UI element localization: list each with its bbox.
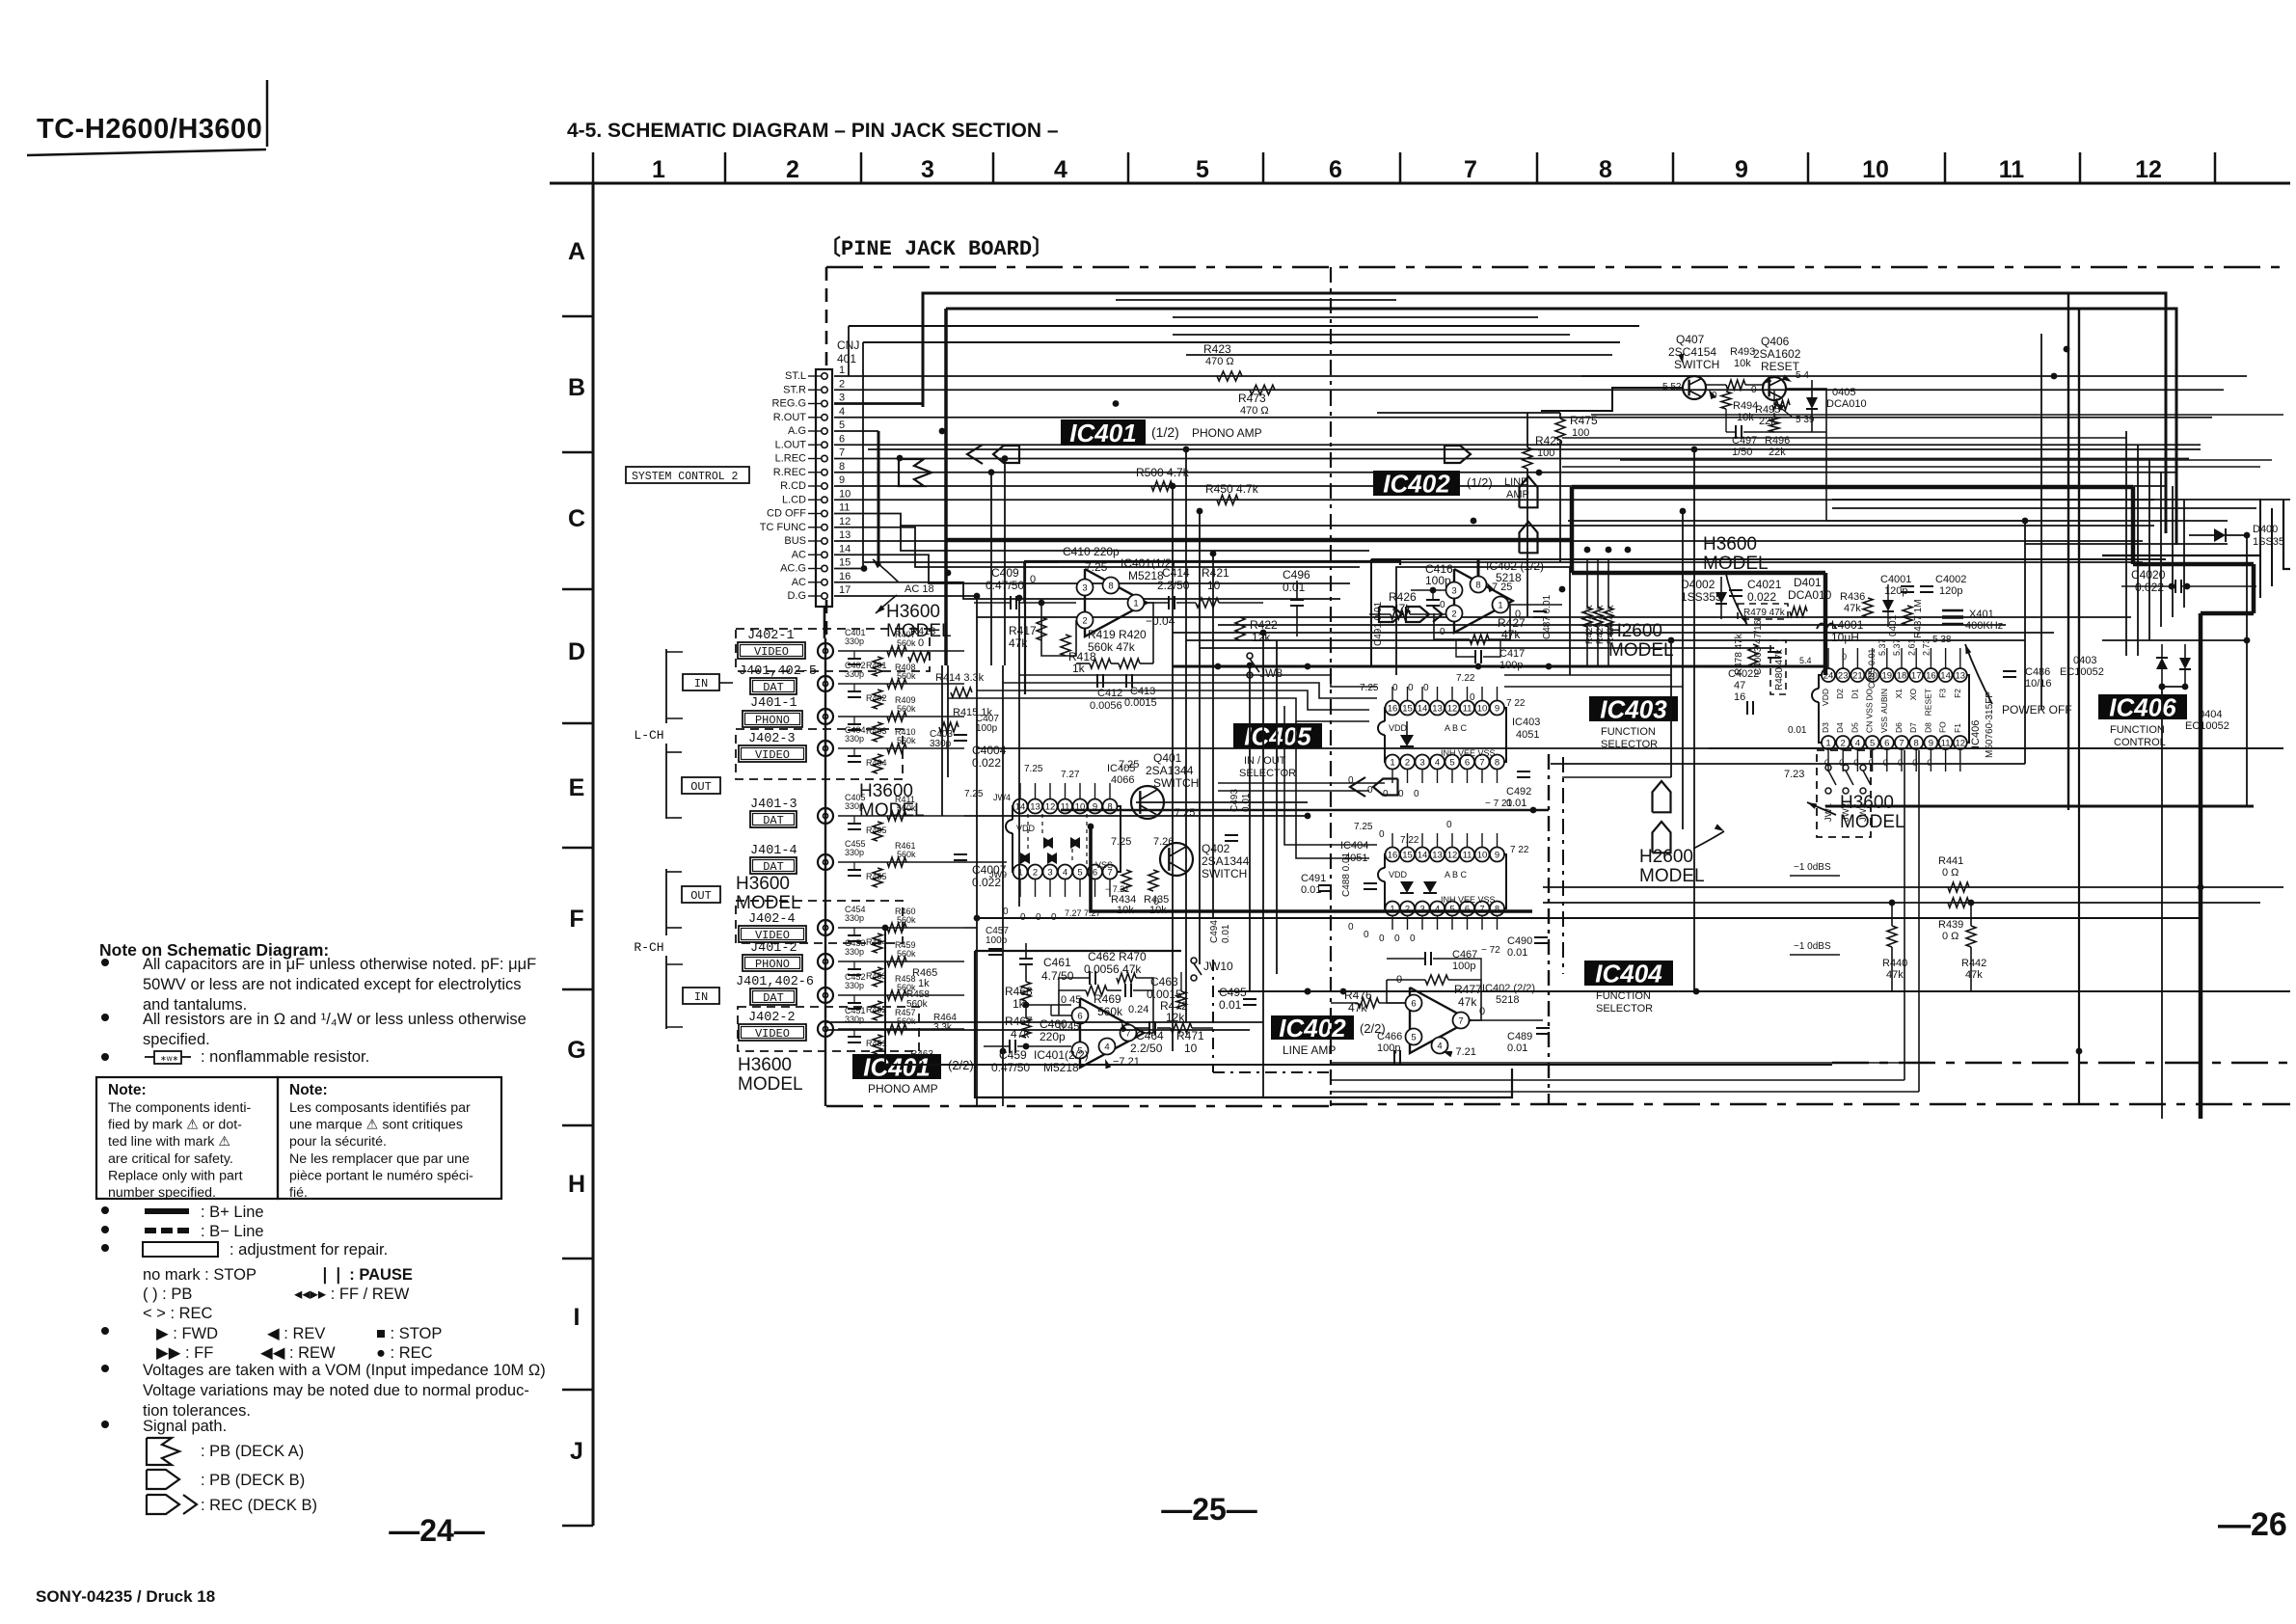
wire pin16 AC <box>834 582 1340 599</box>
wire VDD thick rail <box>1173 665 1825 668</box>
wire reset out <box>1786 389 1826 432</box>
jack components R451 <box>838 1028 964 1030</box>
resistor R437 <box>1903 606 1912 625</box>
wire band below IC403 <box>1218 782 1385 784</box>
svg-text:8: 8 <box>1914 739 1919 749</box>
svg-text:AC 18: AC 18 <box>905 583 934 595</box>
svg-text:DO: DO <box>1865 689 1875 701</box>
wire pin5 A.G <box>834 430 878 432</box>
svg-text:13: 13 <box>1432 851 1443 861</box>
svg-text:0.24: 0.24 <box>1128 1004 1148 1015</box>
svg-text:4-5. SCHEMATIC DIAGRAM – PIN: 4-5. SCHEMATIC DIAGRAM – PIN JACK SECTIO… <box>567 120 1059 142</box>
svg-text:1: 1 <box>1825 739 1830 749</box>
svg-text:0: 0 <box>1912 758 1917 768</box>
svg-text:R405: R405 <box>866 826 887 835</box>
signal arrow left of IC403 <box>1350 777 1365 797</box>
resistor R473 <box>1250 385 1275 394</box>
svg-text:R402: R402 <box>866 693 887 703</box>
svg-text:DCA010: DCA010 <box>1826 398 1867 410</box>
wire pin3 REG.G <box>834 402 923 405</box>
svg-text:8: 8 <box>1108 582 1113 592</box>
svg-text:D: D <box>568 638 585 665</box>
svg-text:C417: C417 <box>1499 648 1525 660</box>
svg-text:400KHz: 400KHz <box>1965 620 2003 632</box>
svg-text:: REC (DECK B): : REC (DECK B) <box>201 1497 317 1514</box>
svg-text:D1: D1 <box>1850 689 1859 699</box>
svg-text:19: 19 <box>1882 671 1893 682</box>
svg-text:11: 11 <box>1941 739 1951 749</box>
svg-text:3: 3 <box>839 392 845 404</box>
svg-text:0: 0 <box>1398 789 1404 799</box>
svg-text:D401: D401 <box>1794 576 1822 589</box>
wire IN bracket top <box>666 651 683 653</box>
svg-text:560k: 560k <box>1097 1005 1123 1018</box>
svg-text:J401-4: J401-4 <box>750 844 797 858</box>
svg-text:C490: C490 <box>1507 935 1532 947</box>
svg-text:0: 0 <box>1883 758 1888 768</box>
svg-text:J: J <box>570 1438 583 1465</box>
svg-text:R452: R452 <box>866 1005 887 1015</box>
resistor R417 <box>1037 617 1046 640</box>
svg-text:0405: 0405 <box>1832 387 1855 398</box>
svg-text:12: 12 <box>1956 739 1966 749</box>
op-amp U IC401a triangle <box>1085 569 1147 636</box>
connector CNJ401 body <box>816 369 832 607</box>
IC406 label box <box>2098 694 2187 719</box>
op-amp U IC402b triangle <box>1410 988 1471 1053</box>
switch JW2 <box>1843 765 1849 771</box>
svg-text:VIDEO: VIDEO <box>754 645 789 659</box>
legend B- line <box>101 1226 109 1233</box>
svg-text:15: 15 <box>839 557 851 569</box>
junction dots <box>1113 400 1120 407</box>
svg-text:OUT: OUT <box>690 889 712 903</box>
svg-text:6: 6 <box>1465 758 1470 769</box>
svg-text:EC10052: EC10052 <box>2060 666 2104 678</box>
svg-text:560k: 560k <box>897 671 916 681</box>
svg-text:100: 100 <box>1572 427 1589 439</box>
dashed box JW switches <box>1817 750 1871 837</box>
svg-text:1: 1 <box>839 365 845 376</box>
svg-text:< > : REC: < > : REC <box>143 1305 213 1322</box>
svg-text:C497: C497 <box>1732 435 1757 447</box>
svg-text:7 22: 7 22 <box>1506 698 1526 709</box>
wire CNJ401 stem below <box>824 607 826 638</box>
svg-text:0: 0 <box>1408 683 1414 693</box>
wire IC402b out <box>1470 1019 1543 1021</box>
IC404 bottom pins <box>1386 902 1400 916</box>
svg-text:: PB (DECK A): : PB (DECK A) <box>201 1443 304 1460</box>
svg-text:401: 401 <box>837 352 856 365</box>
wire pin6 L.OUT <box>834 444 2201 446</box>
svg-text:5.4: 5.4 <box>1799 656 1812 665</box>
svg-text:C4001: C4001 <box>1880 574 1911 585</box>
board outline dashed top <box>826 266 2290 268</box>
wire bus extra b <box>1173 316 1538 318</box>
capacitor C486 <box>2003 670 2016 672</box>
svg-text:100p: 100p <box>1377 1042 1400 1054</box>
svg-text:560k: 560k <box>897 850 916 859</box>
jack components R453 <box>838 961 964 962</box>
svg-text:F3: F3 <box>1938 689 1948 698</box>
wire lower long bus 1 <box>977 917 2201 919</box>
svg-text:5.37: 5.37 <box>1877 638 1887 656</box>
svg-text:IC402: IC402 <box>1383 469 1450 498</box>
svg-text:16: 16 <box>839 571 851 582</box>
svg-text:0: 0 <box>1898 758 1903 768</box>
svg-text:47k: 47k <box>1965 969 1983 981</box>
svg-text:are critical for safety.: are critical for safety. <box>108 1151 233 1167</box>
svg-text:Les composants identifiés par: Les composants identifiés par <box>289 1100 471 1116</box>
diode D400x right <box>2214 528 2226 542</box>
svg-text:7.27: 7.27 <box>1061 770 1080 780</box>
svg-text:6: 6 <box>839 433 845 445</box>
svg-text:0.01: 0.01 <box>1221 924 1231 943</box>
IC404 chip body <box>1385 854 1506 908</box>
frame around IC402a stage <box>1396 567 1570 675</box>
svg-text:FUNCTION: FUNCTION <box>2110 724 2165 736</box>
wire pin2 ST.R <box>834 389 2224 391</box>
svg-text:R495: R495 <box>1755 404 1780 416</box>
svg-text:R439: R439 <box>1938 919 1963 931</box>
wire long band4 <box>900 525 2154 527</box>
IC402 1/2 label box <box>1373 471 1460 496</box>
svg-text:DAT: DAT <box>763 814 784 827</box>
svg-text:REG.G: REG.G <box>772 398 806 410</box>
wire right step net <box>2102 555 2260 556</box>
svg-text:C492: C492 <box>1506 786 1531 798</box>
svg-text:0.01: 0.01 <box>1219 998 1242 1012</box>
IC403 bottom pins <box>1386 755 1400 770</box>
svg-text:0: 0 <box>1515 609 1521 620</box>
svg-text:R.REC: R.REC <box>773 467 806 478</box>
svg-text:VIDEO: VIDEO <box>755 929 790 942</box>
svg-text:IC403: IC403 <box>1600 694 1667 723</box>
svg-text:FO: FO <box>1938 721 1948 733</box>
svg-text:330p: 330p <box>845 913 864 923</box>
svg-text:L-CH: L-CH <box>634 728 663 743</box>
svg-text:C: C <box>568 505 585 532</box>
connector CNJ401 pins <box>822 373 827 379</box>
svg-text:5: 5 <box>1870 739 1875 749</box>
svg-text:4: 4 <box>1054 156 1067 183</box>
wire IC406 feeders down <box>1904 750 1905 1080</box>
svg-text:R477: R477 <box>1454 983 1482 996</box>
svg-text:JW2: JW2 <box>1841 803 1851 822</box>
svg-text:−7 21: −7 21 <box>1113 1056 1140 1068</box>
svg-text:100p: 100p <box>1425 574 1451 587</box>
svg-text:0.01: 0.01 <box>1507 1042 1527 1054</box>
svg-text:R475: R475 <box>1570 414 1598 427</box>
svg-text:ST.R: ST.R <box>783 384 806 395</box>
svg-text:J402-2: J402-2 <box>748 1011 796 1025</box>
svg-text:14: 14 <box>1015 802 1026 813</box>
note box french <box>278 1077 501 1199</box>
wire bus extra d <box>1186 354 1612 356</box>
svg-text:13: 13 <box>1956 671 1966 682</box>
svg-text:J401,402-5: J401,402-5 <box>739 664 817 679</box>
svg-text:−0.04: −0.04 <box>1146 614 1175 628</box>
svg-text:C460: C460 <box>1040 1017 1067 1031</box>
svg-text:11: 11 <box>1999 156 2025 183</box>
svg-text:: PB (DECK B): : PB (DECK B) <box>201 1472 305 1489</box>
svg-text:−1 0dBS: −1 0dBS <box>1794 862 1831 873</box>
wire C492 node line <box>1061 809 1549 812</box>
svg-text:∗w∗: ∗w∗ <box>160 1054 178 1063</box>
svg-text:0.022: 0.022 <box>2135 581 2164 594</box>
svg-text:MODEL: MODEL <box>736 893 801 913</box>
svg-text:—24—: —24— <box>389 1513 485 1548</box>
svg-text:330p: 330p <box>845 848 864 857</box>
wire heavy branch to IC406 <box>1572 571 1825 576</box>
svg-text:7: 7 <box>1899 739 1904 749</box>
svg-text:INH VEE VSS: INH VEE VSS <box>1441 895 1496 905</box>
svg-text:2.73: 2.73 <box>1922 638 1931 656</box>
column ruler ticks <box>592 152 595 183</box>
svg-text:5: 5 <box>1449 758 1454 769</box>
rca jack at y 709 <box>818 676 833 691</box>
svg-text:R417: R417 <box>1009 624 1037 637</box>
svg-text:0: 0 <box>1394 934 1400 944</box>
svg-text:fié.: fié. <box>289 1185 308 1201</box>
svg-text:: adjustment for repair.: : adjustment for repair. <box>230 1241 388 1259</box>
svg-text:SELECTOR: SELECTOR <box>1596 1003 1653 1015</box>
svg-text:D4002: D4002 <box>1681 578 1715 591</box>
svg-text:2: 2 <box>839 378 845 390</box>
svg-text:13: 13 <box>839 529 851 541</box>
wire mid band a <box>1173 632 2054 634</box>
svg-text:PHONO AMP: PHONO AMP <box>868 1082 938 1096</box>
svg-text:0.01: 0.01 <box>1788 725 1807 736</box>
svg-text:G: G <box>567 1037 585 1064</box>
wire bus top fourth <box>863 341 1620 343</box>
svg-text:R451: R451 <box>866 1039 887 1048</box>
svg-text:VSS: VSS <box>1879 717 1889 733</box>
svg-text:◀◀ : REW: ◀◀ : REW <box>260 1344 336 1362</box>
svg-text:PHONO AMP: PHONO AMP <box>1192 426 1262 440</box>
wire IC402a fb <box>1434 613 1470 639</box>
resistor R434 R435 <box>1121 870 1131 891</box>
svg-text:une marque ⚠ sont critiques: une marque ⚠ sont critiques <box>289 1118 463 1133</box>
svg-text:JW1: JW1 <box>1823 803 1834 822</box>
wire mid band c <box>1200 647 1774 649</box>
svg-text:0.01: 0.01 <box>1506 798 1526 809</box>
svg-text:: B+ Line: : B+ Line <box>201 1204 264 1221</box>
svg-text:C4022: C4022 <box>1728 668 1759 680</box>
capacitor C417 <box>1474 650 1476 663</box>
svg-text:H3600: H3600 <box>736 874 790 894</box>
svg-text:L.REC: L.REC <box>775 453 806 465</box>
svg-text:L.OUT: L.OUT <box>775 439 807 450</box>
wire pin11 CD OFF <box>834 514 1369 552</box>
svg-text:IC404: IC404 <box>1595 959 1662 988</box>
wire heavy left vertical <box>944 309 948 665</box>
svg-text:5: 5 <box>839 420 845 431</box>
inductor L4001 <box>1817 624 1836 630</box>
svg-text:0.47/50: 0.47/50 <box>991 1061 1030 1074</box>
resistors R428 R429 R430 <box>1582 608 1592 627</box>
svg-text:SWITCH: SWITCH <box>1202 867 1247 880</box>
dashed group box J402-4 <box>736 901 903 943</box>
jack components R405 <box>838 815 964 817</box>
svg-text:▶▶ : FF: ▶▶ : FF <box>156 1344 213 1362</box>
IC404 pin stubs <box>1391 833 1393 847</box>
svg-text:560k: 560k <box>897 915 916 925</box>
svg-text:Ne les remplacer que par une: Ne les remplacer que par une <box>289 1151 470 1167</box>
svg-text:J401-3: J401-3 <box>750 798 797 812</box>
wire pin4 R.OUT <box>834 417 2212 419</box>
svg-text:3: 3 <box>1082 583 1087 594</box>
svg-text:J402-4: J402-4 <box>748 912 796 927</box>
svg-text:J401,402-6: J401,402-6 <box>736 975 814 989</box>
svg-text:D4: D4 <box>1835 722 1845 733</box>
IC404 label box <box>1584 961 1673 986</box>
resistor R422 <box>1235 617 1245 640</box>
svg-text:6: 6 <box>1465 905 1470 915</box>
rca jack at y 997 <box>818 954 833 969</box>
capacitor C412 C413 <box>1096 674 1098 688</box>
rca jack at y 776 <box>818 741 833 756</box>
svg-text:2: 2 <box>1033 868 1038 879</box>
svg-text:D7: D7 <box>1908 722 1918 733</box>
svg-text:POWER OFF: POWER OFF <box>2002 703 2072 717</box>
resistor R425 <box>1523 447 1532 469</box>
wire mid verticals left <box>1172 486 1174 1051</box>
svg-text:7: 7 <box>1464 156 1477 183</box>
svg-text:3: 3 <box>1047 868 1052 879</box>
wire bottom staircase <box>1331 1062 1904 1064</box>
dashed box IC401b section <box>1212 960 1214 1072</box>
svg-text:ST.L: ST.L <box>785 370 806 382</box>
svg-text:IC401(2/2): IC401(2/2) <box>1034 1048 1089 1062</box>
svg-text:3: 3 <box>1419 905 1424 915</box>
svg-text:R469: R469 <box>1094 992 1121 1006</box>
wire strong C485 node line <box>1825 805 2254 808</box>
svg-text:4.7/50: 4.7/50 <box>1041 969 1074 983</box>
svg-text:(1/2): (1/2) <box>1151 424 1179 440</box>
wire pin8 up thick <box>1477 559 1480 577</box>
svg-text:330p: 330p <box>845 734 864 744</box>
svg-text:C491 0.01: C491 0.01 <box>1373 601 1384 646</box>
svg-text:10/16: 10/16 <box>2025 678 2052 690</box>
svg-text:C466: C466 <box>1377 1031 1402 1042</box>
svg-text:FUNCTION: FUNCTION <box>1601 726 1656 738</box>
svg-text:13: 13 <box>1432 704 1443 715</box>
svg-text:R480 47k: R480 47k <box>1774 648 1785 690</box>
column ruler line <box>550 182 2290 185</box>
svg-text:560k: 560k <box>897 704 916 714</box>
svg-text:C410 220p: C410 220p <box>1063 545 1120 558</box>
svg-text:A: A <box>568 238 585 265</box>
svg-text:4: 4 <box>1435 905 1440 915</box>
svg-text:TC-H2600/H3600: TC-H2600/H3600 <box>37 114 262 145</box>
svg-text:X1: X1 <box>1894 689 1904 699</box>
svg-text:DAT: DAT <box>763 681 784 694</box>
svg-text:2SA1602: 2SA1602 <box>1753 347 1801 361</box>
svg-text:1/50: 1/50 <box>1732 447 1752 458</box>
L-CH bracket <box>665 649 667 819</box>
svg-text:14: 14 <box>1418 704 1428 715</box>
svg-text:12: 12 <box>2135 156 2162 183</box>
svg-text:C494: C494 <box>1209 920 1220 943</box>
svg-text:pièce portant le numéro spéci-: pièce portant le numéro spéci- <box>289 1168 473 1183</box>
signal arrows center right <box>1653 781 1671 812</box>
svg-text:F2: F2 <box>1953 689 1962 698</box>
svg-text:4: 4 <box>1063 868 1067 879</box>
svg-text:R423: R423 <box>1203 342 1231 356</box>
svg-text:AUBIN: AUBIN <box>1879 689 1889 714</box>
svg-text:D400: D400 <box>2253 524 2278 535</box>
svg-text:7.25: 7.25 <box>1354 822 1373 832</box>
wire top bus risers <box>848 326 850 376</box>
legend fwd rev stop <box>101 1327 109 1335</box>
note box english <box>96 1077 278 1199</box>
svg-text:R.CD: R.CD <box>780 480 806 492</box>
svg-text:10k: 10k <box>1737 412 1754 423</box>
OUT box upper <box>682 777 720 794</box>
svg-text:22k: 22k <box>1769 447 1786 458</box>
svg-text:10k: 10k <box>1734 358 1751 369</box>
svg-text:5218: 5218 <box>1496 994 1519 1006</box>
svg-text:100: 100 <box>1537 447 1554 459</box>
IC402 2/2 label box <box>1271 1015 1354 1040</box>
svg-text:JW3: JW3 <box>1858 803 1869 822</box>
jack components R404 <box>838 747 964 749</box>
svg-text:H3600: H3600 <box>886 602 940 622</box>
wire right vertical pair lower <box>2078 656 2080 1104</box>
svg-text:AC: AC <box>792 577 806 588</box>
IC405 label box <box>1233 723 1322 748</box>
svg-text:R401: R401 <box>866 661 887 670</box>
svg-text:M5218: M5218 <box>1043 1061 1079 1074</box>
SYSTEM CONTROL 2 box <box>626 467 749 483</box>
svg-text:14: 14 <box>1418 851 1428 861</box>
crystal X401 <box>1942 609 1963 612</box>
legend signal path heading <box>101 1421 109 1428</box>
svg-text:2: 2 <box>1405 905 1410 915</box>
svg-text:LINE: LINE <box>1504 476 1527 488</box>
svg-text:560k: 560k <box>897 803 916 813</box>
wire pin1 ST.L <box>834 375 2247 377</box>
wire staircase IC403 feed <box>1019 675 1377 687</box>
svg-text:D8: D8 <box>1923 722 1932 733</box>
wire right comb verticals <box>2125 431 2127 656</box>
svg-text:1: 1 <box>652 156 665 183</box>
svg-text:C4002: C4002 <box>1935 574 1966 585</box>
svg-text:5: 5 <box>1411 1033 1416 1043</box>
svg-text:7.22: 7.22 <box>1400 835 1419 846</box>
svg-text:18: 18 <box>1897 671 1907 682</box>
svg-text:〔PINE JACK BOARD〕: 〔PINE JACK BOARD〕 <box>820 236 1053 261</box>
svg-text:TC FUNC: TC FUNC <box>760 522 806 533</box>
wire pin15 AC.G <box>834 568 864 570</box>
switch JW1 <box>1825 765 1831 771</box>
svg-text:PHONO: PHONO <box>755 958 790 971</box>
svg-text:(1/2): (1/2) <box>1467 475 1493 490</box>
svg-text:4: 4 <box>1855 739 1860 749</box>
svg-text:6: 6 <box>1884 739 1889 749</box>
note bullet capacitors <box>101 959 109 966</box>
svg-text:560k: 560k <box>897 1016 916 1026</box>
svg-text:CN VSS: CN VSS <box>1865 702 1875 733</box>
svg-text:0: 0 <box>1423 683 1429 693</box>
svg-text:7.22: 7.22 <box>1456 673 1475 684</box>
svg-text:R404: R404 <box>866 758 887 768</box>
svg-text:0: 0 <box>1479 1006 1485 1017</box>
wire right net band <box>1832 499 2290 501</box>
frame around IC401b stage <box>975 951 1512 1097</box>
IC406 bottom pins <box>1822 736 1835 749</box>
